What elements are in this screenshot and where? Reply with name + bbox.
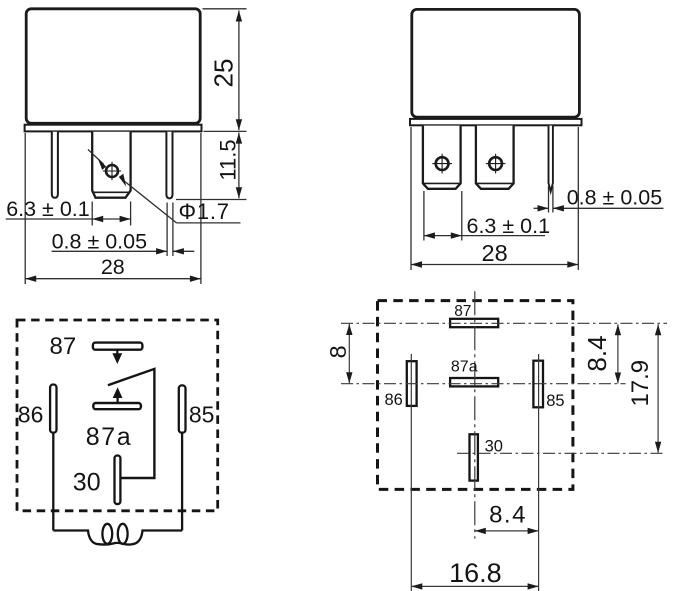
svg-text:87: 87 — [50, 333, 77, 360]
svg-text:17.9: 17.9 — [627, 360, 654, 407]
svg-text:85: 85 — [189, 401, 215, 427]
svg-text:8: 8 — [325, 345, 351, 358]
svg-text:30: 30 — [73, 469, 101, 497]
svg-text:86: 86 — [18, 401, 44, 427]
svg-text:25: 25 — [209, 59, 239, 88]
svg-text:30: 30 — [485, 438, 503, 456]
svg-text:0.8 ± 0.05: 0.8 ± 0.05 — [567, 186, 663, 210]
svg-text:87a: 87a — [86, 423, 133, 451]
svg-text:28: 28 — [482, 240, 508, 266]
svg-text:16.8: 16.8 — [449, 558, 502, 588]
svg-text:Φ1.7: Φ1.7 — [179, 199, 230, 224]
svg-text:8.4: 8.4 — [489, 501, 527, 528]
svg-text:86: 86 — [385, 391, 403, 409]
svg-text:6.3 ± 0.1: 6.3 ± 0.1 — [467, 214, 551, 238]
svg-text:28: 28 — [101, 255, 125, 279]
svg-text:11.5: 11.5 — [215, 139, 240, 180]
svg-text:85: 85 — [546, 392, 564, 410]
svg-text:87: 87 — [454, 303, 471, 320]
svg-text:6.3 ± 0.1: 6.3 ± 0.1 — [6, 197, 90, 221]
svg-text:8.4: 8.4 — [582, 335, 612, 371]
svg-text:87a: 87a — [451, 358, 478, 375]
svg-text:0.8 ± 0.05: 0.8 ± 0.05 — [52, 229, 148, 253]
